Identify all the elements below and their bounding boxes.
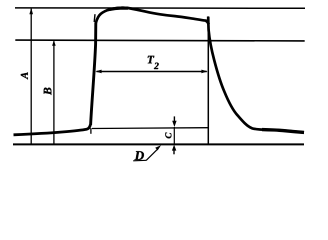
dimension T2 right arrowhead (201, 70, 207, 74)
wire leading-edge spike (93, 14, 96, 22)
wire tail end thick blob (262, 130, 304, 133)
label B (44, 88, 52, 95)
leader line from D to bottom line (146, 149, 157, 160)
dimension C upper extension stem (173, 116, 175, 121)
wire extension line from falling edge to bottom line (207, 22, 209, 144)
dimension T2 horizontal line (97, 71, 207, 73)
label A (21, 72, 28, 79)
wire pulse falling edge and exponential tail (208, 17, 304, 133)
dimension C lower extension stem (173, 150, 175, 154)
wire trailing-edge spike (207, 16, 209, 20)
node zero reference line (bottom horizontal) (13, 143, 304, 145)
label C (165, 133, 171, 139)
node B amplitude level line (second horizontal) (15, 39, 304, 42)
wire pulse top: overshoot peak and droop (96, 8, 207, 23)
dimension B arrowhead (up, at second line) (52, 40, 56, 45)
label D (135, 151, 144, 160)
dimension B vertical line (53, 41, 55, 144)
wire peak overshoot thickening (108, 8, 128, 10)
wire pulse rising edge (91, 23, 96, 126)
dimension A vertical line (30, 9, 32, 144)
dimension A arrowhead (up, at top line) (29, 8, 33, 14)
label T2 (148, 56, 155, 63)
wire tick below rising-edge corner (90, 128, 92, 134)
wire trailing corner junction blob (206, 21, 209, 25)
dimension T2 left arrowhead (95, 70, 101, 74)
label D underline (133, 159, 146, 162)
dimension C lower arrowhead (up, tip at bottom line) (172, 145, 176, 151)
wire baseline trace before pulse (14, 125, 91, 135)
wire reference level line under pulse (92, 127, 208, 130)
leader arrowhead (155, 145, 161, 150)
dimension C upper arrowhead (down, tip at reference level) (172, 121, 176, 127)
node 100% amplitude level line (top horizontal) (15, 7, 305, 9)
dimension C line across gap (173, 127, 175, 144)
